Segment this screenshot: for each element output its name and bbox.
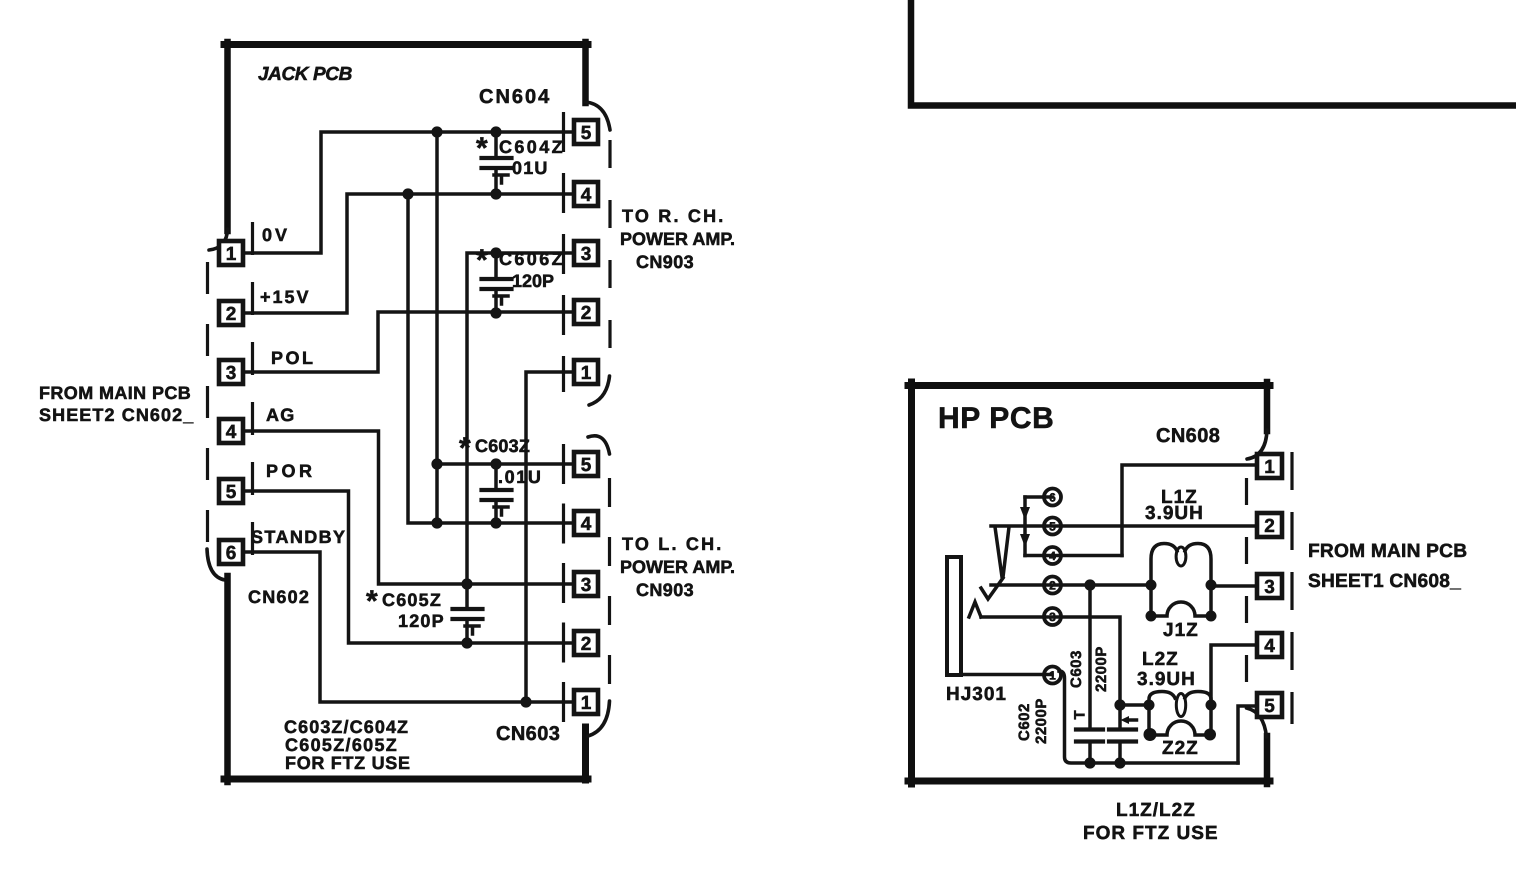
JACK PCB board outline: right edge lower (below CN603): [582, 727, 589, 780]
svg-text:120P: 120P: [398, 611, 445, 631]
HJ301 ring contact flick: [969, 602, 981, 617]
svg-text:C605Z: C605Z: [382, 590, 442, 610]
switch arrow lower: [1020, 534, 1030, 547]
connector CN603 pin 1: [574, 690, 598, 714]
svg-text:120P: 120P: [512, 271, 554, 291]
HP PCB board outline: bottom edge: [908, 778, 1270, 785]
svg-text:2: 2: [1264, 516, 1275, 537]
svg-text:4: 4: [581, 514, 592, 535]
svg-text:STANDBY: STANDBY: [251, 527, 346, 547]
svg-text:2: 2: [226, 304, 237, 325]
connector CN603 bracket: top arc: [588, 436, 610, 454]
inductor L1Z coil right half: [1185, 544, 1211, 586]
connector CN602 pin 1: [219, 241, 243, 265]
svg-text:+15V: +15V: [260, 287, 311, 307]
HP PCB board outline: right edge upper: [1264, 382, 1271, 431]
connector CN608 pin 2: [1257, 513, 1282, 537]
svg-text:L1Z/L2Z: L1Z/L2Z: [1116, 800, 1196, 821]
HP PCB board outline: left edge: [908, 382, 915, 784]
svg-text:1: 1: [1264, 457, 1275, 478]
svg-text:CN603: CN603: [496, 723, 560, 745]
svg-text:1: 1: [226, 244, 237, 265]
JACK PCB board outline: arc into CN602 top: [209, 229, 228, 250]
svg-text:01U: 01U: [512, 158, 549, 178]
svg-text:FOR FTZ USE: FOR FTZ USE: [1083, 823, 1219, 844]
svg-text:5: 5: [581, 455, 592, 476]
svg-text:5: 5: [1264, 696, 1275, 717]
svg-text:CN903: CN903: [636, 252, 694, 272]
capacitor C603 2200P: [1109, 705, 1137, 763]
svg-text:3.9UH: 3.9UH: [1137, 669, 1196, 690]
connector CN603 pin 5: [574, 452, 598, 476]
svg-text:JACK PCB: JACK PCB: [258, 64, 353, 85]
connector CN604 pin 5: [574, 120, 598, 144]
connector CN608 bracket: left dashed line: [1245, 478, 1248, 694]
svg-text:FROM MAIN PCB: FROM MAIN PCB: [39, 383, 191, 403]
svg-text:3: 3: [581, 575, 592, 596]
connector CN603 body: left dashed line: [562, 444, 565, 722]
connector CN604 bracket: bottom arc: [589, 376, 610, 405]
capacitor C602 2200P: [1076, 585, 1103, 763]
JACK PCB board outline: arc out of CN602 bottom: [207, 549, 225, 580]
svg-text:C603Z: C603Z: [475, 436, 530, 456]
svg-text:3.9UH: 3.9UH: [1145, 503, 1204, 524]
svg-text:FOR FTZ USE: FOR FTZ USE: [285, 753, 411, 773]
connector CN603 pin 4: [574, 511, 598, 535]
wire switch link contact6 to contact4: [1023, 497, 1027, 556]
inductor L2Z coil right half: [1185, 692, 1211, 706]
svg-text:C603Z/C604Z: C603Z/C604Z: [284, 717, 409, 737]
HJ301 contact 4: [1044, 547, 1061, 564]
node junction dots (JACK PCB): [402, 126, 531, 707]
connector CN603 pin 3: [574, 572, 598, 596]
wire contact 3 row down to C603 node: [981, 617, 1149, 705]
wire 0V: CN602-1 to CN604-5: [244, 132, 574, 253]
svg-text:4: 4: [226, 422, 237, 443]
svg-text:*: *: [476, 244, 488, 277]
svg-text:3: 3: [581, 244, 592, 265]
connector CN602 pin 4: [219, 419, 243, 443]
headphone jack HJ301: body: [947, 557, 961, 675]
svg-text:POWER AMP.: POWER AMP.: [620, 557, 735, 577]
svg-text:5: 5: [226, 482, 237, 503]
wire contact 6 stub: [1025, 495, 1052, 499]
JACK PCB board outline: right edge upper: [582, 42, 589, 103]
wire CN604-1 down to CN603-1 row: [526, 372, 574, 702]
svg-text:C603: C603: [1068, 650, 1085, 688]
JACK PCB board outline: bottom edge: [224, 776, 588, 783]
connector CN602 pin 2: [219, 301, 243, 325]
connector CN608 bracket: bottom arc: [1247, 708, 1267, 737]
inductor L1Z center loop: [1176, 547, 1186, 566]
frame: partial rectangle top-right (cut off at page top): [911, 0, 1516, 106]
connector CN608 pin 4: [1257, 633, 1282, 657]
svg-text:SHEET1 CN608_: SHEET1 CN608_: [1308, 571, 1461, 592]
svg-text:4: 4: [581, 185, 592, 206]
connector CN603 bracket: right dashed line: [608, 478, 611, 698]
connector CN602 body: right dashed line: [251, 222, 254, 570]
svg-text:*: *: [476, 132, 488, 165]
HJ301 contact 6: [1044, 489, 1061, 506]
svg-text:J1Z: J1Z: [1163, 620, 1199, 641]
svg-text:*: *: [366, 585, 378, 618]
HJ301 contact 5: [1044, 518, 1061, 535]
connector CN604 body: left dashed line: [562, 112, 565, 392]
svg-text:.01U: .01U: [498, 467, 542, 487]
svg-text:T: T: [1072, 710, 1089, 720]
svg-text:FROM MAIN PCB: FROM MAIN PCB: [1308, 541, 1467, 562]
connector CN604 bracket: top arc from board edge: [586, 102, 611, 130]
wire J1Z to CN608-3: [1211, 584, 1257, 588]
wire CN603-5 row: [437, 462, 574, 466]
inductor L1Z coil: [1151, 544, 1177, 586]
wire ground row up to CN608-5: [1238, 706, 1257, 763]
node junction dots (HP PCB): [1084, 579, 1216, 768]
wire contact 4 row to riser: [1025, 554, 1122, 558]
svg-text:1: 1: [581, 693, 592, 714]
capacitor C605Z 120P: [453, 584, 483, 643]
svg-text:L2Z: L2Z: [1142, 649, 1179, 670]
wire tip line to CN608-2: [991, 524, 1257, 528]
svg-text:C604Z: C604Z: [499, 137, 565, 157]
connector CN608 pin 3: [1257, 574, 1282, 598]
HP PCB board outline: top edge: [908, 382, 1270, 389]
svg-text:2: 2: [581, 303, 592, 324]
JACK PCB board outline: top edge: [224, 41, 588, 48]
wire STANDBY: CN602-6 down to CN603-1: [244, 552, 574, 702]
jumper Z2Z hump: [1149, 705, 1211, 735]
svg-text:POL: POL: [271, 348, 316, 368]
capacitor C603Z .01U: [482, 464, 512, 523]
wire sleeve contact 1 row: [961, 673, 1052, 677]
svg-text:2: 2: [581, 634, 592, 655]
connector CN608 pin 1: [1257, 454, 1282, 478]
svg-text:3: 3: [1264, 577, 1275, 598]
connector CN604 pin 1: [574, 360, 598, 384]
connector CN608 body: right dashed line: [1290, 452, 1293, 724]
svg-text:AG: AG: [266, 405, 295, 425]
wire Z2Z to CN608-4: [1211, 645, 1257, 705]
svg-text:3: 3: [226, 363, 237, 384]
svg-text:SHEET2 CN602_: SHEET2 CN602_: [39, 405, 194, 425]
connector CN608 pin 5: [1257, 693, 1282, 717]
svg-text:POR: POR: [266, 461, 316, 481]
svg-text:4: 4: [1264, 636, 1275, 657]
svg-text:CN608: CN608: [1156, 425, 1220, 447]
svg-text:CN602: CN602: [248, 587, 310, 607]
HP PCB board outline: right edge lower: [1264, 736, 1271, 784]
svg-text:2200P: 2200P: [1093, 646, 1110, 692]
svg-text:Z2Z: Z2Z: [1162, 738, 1199, 759]
jumper J1Z hump: [1151, 585, 1211, 616]
wire POR: CN602-5 down to CN603-2: [244, 491, 574, 643]
connector CN604 pin 4: [574, 182, 598, 206]
svg-text:TO L. CH.: TO L. CH.: [622, 534, 723, 554]
svg-text:HJ301: HJ301: [946, 684, 1007, 705]
svg-text:0V: 0V: [262, 225, 290, 245]
svg-text:TO R. CH.: TO R. CH.: [622, 206, 725, 226]
wire ring/contact2 row to J1Z: [991, 583, 1151, 587]
inductor L2Z coil: [1149, 692, 1175, 706]
svg-text:POWER AMP.: POWER AMP.: [620, 229, 735, 249]
wire sleeve elbow down to ground row: [1059, 671, 1238, 763]
HJ301 tip contact wedge: [995, 527, 1009, 577]
svg-text:6: 6: [226, 543, 237, 564]
svg-text:2200P: 2200P: [1033, 698, 1050, 744]
svg-text:C602: C602: [1016, 703, 1033, 741]
connector CN602 body: left dashed line: [206, 262, 209, 552]
HJ301 contact 2: [1044, 577, 1061, 594]
connector CN604 pin 2: [574, 300, 598, 324]
HJ301 contact 3: [1044, 608, 1061, 625]
wire riser to CN608-1: [1122, 465, 1257, 556]
connector CN604 pin 3: [574, 241, 598, 265]
connector CN602 pin 5: [219, 479, 243, 503]
svg-text:CN604: CN604: [479, 86, 551, 108]
svg-text:C605Z/605Z: C605Z/605Z: [285, 735, 398, 755]
connector CN602 pin 6: [219, 540, 243, 564]
wire AG: CN602-4 down to CN603-3: [244, 431, 574, 584]
wire bus from CN604-5 row down through CN603-5 row to CN603-4 row: [435, 132, 439, 523]
connector CN603 pin 2: [574, 631, 598, 655]
svg-text:*: *: [459, 432, 471, 465]
switch arrow upper: [1020, 507, 1030, 520]
wire POL: CN602-3 up to CN604-2: [244, 312, 574, 372]
connector CN608 bracket: top arc: [1247, 430, 1267, 459]
svg-text:1: 1: [581, 363, 592, 384]
HJ301 tip contact flick: [981, 578, 1003, 599]
svg-text:HP PCB: HP PCB: [938, 402, 1054, 435]
capacitor C604Z .01U: [482, 132, 512, 194]
wire +15V: CN602-2 to CN604-4: [244, 194, 574, 313]
wire CN604-3 row and bus down to CN603-3 row: [467, 253, 574, 584]
connector CN602 pin 3: [219, 360, 243, 384]
JACK PCB board outline: left edge upper: [224, 42, 231, 231]
svg-text:CN903: CN903: [636, 580, 694, 600]
connector CN603 bracket: bottom arc: [588, 701, 610, 736]
capacitor C606Z 120P: [482, 253, 512, 313]
svg-text:C606Z: C606Z: [499, 249, 565, 269]
svg-text:5: 5: [581, 123, 592, 144]
JACK PCB board outline: left edge lower: [224, 576, 231, 782]
wire bus from CN604-4 row down to CN603-4 row: [408, 194, 574, 523]
connector CN604 bracket: right dashed line: [608, 140, 611, 370]
inductor L2Z center loop: [1176, 694, 1185, 717]
HJ301 contact 1: [1044, 667, 1061, 684]
